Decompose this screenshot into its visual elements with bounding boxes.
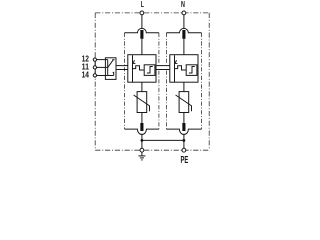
thermal disconnector F1 (L, top bar with arc) [125, 28, 159, 32]
contact blade 11 [108, 60, 114, 68]
spark gap unit U2 (N) box [170, 55, 198, 82]
spark gap U1 electrode symbol [132, 55, 134, 82]
spark gap U2 trigger step symbol [189, 67, 195, 74]
wire terminal 14 to contact box [97, 75, 114, 77]
contact 12 fixed [107, 60, 109, 76]
wire spark gap to varistor (N) [183, 82, 185, 91]
wire varistor to bottom disconnector (L) [141, 113, 143, 124]
PE rail wire [142, 139, 184, 141]
svg-text:PE: PE [181, 154, 189, 164]
wire N terminal to disconnector [183, 15, 185, 29]
ground symbol [138, 152, 145, 160]
thermal disconnector F2 element (black) [182, 30, 185, 39]
wire spark gap to varistor (L) [141, 82, 143, 91]
thermal disconnector F2 (N, top bar with arc) [166, 28, 201, 32]
varistor RV2 (N) [179, 92, 189, 113]
svg-text:L: L [141, 0, 144, 9]
wire disconnector to spark gap box (N) [183, 39, 185, 55]
wire terminal 12 to contact box [97, 59, 108, 61]
spark gap U2 trigger box [186, 65, 197, 76]
bottom disconnector (N, bar with arc dip) [166, 129, 201, 134]
enclosure border (dash-dot device outline) [95, 13, 209, 150]
spark gap U2 electrode symbol [174, 55, 176, 82]
spark gap U1 trigger step symbol [147, 67, 153, 74]
spark gap unit U1 (L) box [128, 55, 156, 82]
junction node (L) [141, 139, 144, 142]
svg-text:N: N [181, 0, 185, 9]
terminal L [140, 11, 144, 15]
wire terminal 11 to contact box [97, 66, 108, 68]
spark gap U2 trigger link wave [175, 66, 187, 70]
wire bottom disconnector to PE rail (L) [141, 134, 143, 149]
varistor RV1 (L) [137, 92, 147, 113]
wire disconnector to spark gap box (L) [141, 39, 143, 55]
bottom disconnector element (N, black) [182, 123, 185, 131]
spark gap U1 trigger box [144, 65, 155, 76]
wire L terminal to disconnector [141, 15, 143, 29]
wire varistor to bottom disconnector (N) [183, 113, 185, 124]
changeover contact box S1 [105, 58, 116, 80]
terminal earth (bottom left) [140, 148, 144, 152]
left border solid segment behind signalling terminals [94, 57, 96, 77]
bottom disconnector element (L, black) [140, 123, 143, 131]
svg-text:14: 14 [82, 69, 90, 79]
module 1 mechanical frame (dash-dot sides) [125, 33, 159, 129]
remote signalling contact terminals 12 11 14 [93, 58, 96, 61]
bottom disconnector (L, bar with arc dip) [125, 129, 159, 134]
terminal N [182, 11, 186, 15]
mechanical link contact box to module 1 [116, 65, 128, 67]
module 2 mechanical frame (dash-dot sides) [166, 33, 201, 129]
terminal PE [182, 148, 186, 152]
wire bottom disconnector to PE rail (N) [183, 134, 185, 149]
mechanical link module 1 to module 2 [156, 65, 170, 67]
spark gap U1 trigger link wave [133, 66, 145, 70]
junction node (N) [183, 139, 186, 142]
thermal disconnector F1 element (black) [140, 30, 143, 39]
contact 14 open hook [113, 72, 114, 75]
